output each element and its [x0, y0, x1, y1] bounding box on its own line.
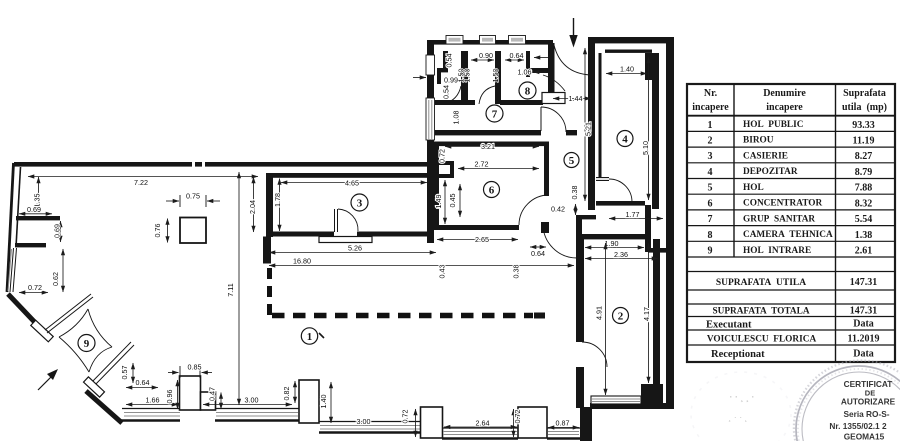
wall diagonal lower (entrance corner): [86, 391, 122, 423]
svg-text:GEOMA15: GEOMA15: [844, 432, 885, 441]
window top 1: [446, 36, 463, 45]
room8 door arc: [543, 75, 565, 91]
dim 5.21: [584, 48, 586, 201]
svg-text:4.91: 4.91: [595, 306, 604, 320]
svg-text:1.08: 1.08: [452, 111, 461, 125]
room circle 8: [519, 82, 536, 99]
svg-text:147.31: 147.31: [850, 306, 878, 317]
svg-text:Receptionat: Receptionat: [711, 349, 765, 360]
svg-text:1.50: 1.50: [463, 69, 472, 83]
dim 0.72 left: [19, 292, 48, 294]
window band left wall: [10, 248, 17, 292]
svg-text:1.06: 1.06: [518, 68, 532, 77]
room4 bottom wall: [596, 201, 645, 206]
room6 niche bottom: [437, 174, 454, 178]
room4 door arc: [609, 179, 632, 202]
arrow into divider wall: [413, 77, 426, 79]
wall left slanted outer: [7, 163, 14, 292]
stamp inner circle: [802, 372, 900, 441]
dim 0.72 rot a: [415, 409, 417, 437]
window band C (bottom wall x319-420): [319, 421, 421, 423]
room2 left wall upper: [576, 239, 584, 342]
dim 1.90: [585, 247, 644, 249]
wall bottom of stalls right: [500, 100, 543, 105]
svg-text:0.54: 0.54: [445, 54, 454, 68]
svg-text:0.54: 0.54: [442, 85, 451, 99]
room3 bottom wall left part: [273, 232, 334, 237]
hall5 step wall vertical: [576, 215, 582, 239]
stamp faint left: [691, 372, 791, 441]
svg-text:7.22: 7.22: [134, 178, 148, 187]
svg-text:7: 7: [708, 214, 713, 225]
window band E (bottom wall x547-580): [547, 427, 580, 429]
wall niche step 2 (left): [15, 243, 46, 247]
svg-text:0.45: 0.45: [448, 194, 457, 208]
svg-text:5.10: 5.10: [641, 141, 650, 155]
svg-text:0.38: 0.38: [570, 186, 579, 200]
dim 0.47: [220, 393, 222, 410]
wall left inner face line: [16, 167, 21, 247]
dim 1.35: [38, 177, 40, 210]
room8 partition: [526, 51, 530, 77]
svg-text:2: 2: [708, 136, 713, 147]
svg-text:1.66: 1.66: [146, 396, 160, 405]
room2 top wall: [582, 234, 648, 239]
dim 0.75 (column): [166, 200, 179, 202]
wall top-right (room 4): [588, 37, 674, 43]
wall right outer (full height): [666, 37, 674, 409]
svg-text:1.40: 1.40: [620, 65, 634, 74]
window top 3: [509, 36, 526, 45]
svg-text:BIROU: BIROU: [743, 136, 774, 146]
stamp outer circle: [796, 366, 900, 441]
stall1 wall stub a: [443, 51, 448, 69]
wall diagonal upper (entrance corner): [8, 294, 45, 333]
room6 door arc: [519, 195, 549, 225]
svg-text:CASIERIE: CASIERIE: [743, 152, 788, 162]
svg-text:0.57: 0.57: [120, 366, 129, 380]
stall1 door arc: [444, 86, 461, 104]
table column separator 2: [835, 84, 837, 362]
svg-text:7: 7: [492, 109, 498, 121]
svg-text:Nr. 1355/02.1 2: Nr. 1355/02.1 2: [829, 421, 887, 431]
svg-text:Seria RO-S-: Seria RO-S-: [843, 409, 889, 419]
room6 top wall: [434, 142, 549, 147]
svg-text:2.61: 2.61: [855, 246, 873, 257]
svg-text:0.75: 0.75: [186, 192, 200, 201]
room2 right inner wall: [653, 239, 660, 385]
hall7 door arc: [541, 107, 566, 132]
dashed boundary horizontal: [272, 313, 533, 319]
svg-text:0.82: 0.82: [282, 387, 291, 401]
window in divider wall a: [426, 55, 435, 75]
svg-text:9: 9: [708, 246, 713, 257]
room3 bottom wall right part: [357, 232, 434, 237]
room circle 6: [484, 182, 500, 198]
dim 1.44: [553, 98, 591, 100]
svg-text:1: 1: [307, 331, 313, 343]
room6 niche right: [450, 161, 454, 178]
window slits top-left wall: [192, 162, 195, 168]
hall5 step wall horizontal: [577, 215, 596, 219]
svg-text:0.72: 0.72: [28, 283, 42, 292]
svg-text:0.72: 0.72: [513, 410, 522, 424]
dim 2.04: [253, 177, 255, 232]
svg-text:1.44: 1.44: [569, 94, 583, 103]
dim 1.66: [126, 404, 178, 406]
room6 left wall: [434, 142, 439, 230]
svg-text:1.77: 1.77: [626, 210, 640, 219]
window band B (bottom wall x215-299): [215, 408, 299, 410]
wall top (rooms 7/8): [427, 40, 553, 45]
dim 0.64 d: [530, 246, 546, 248]
dim 2.72: [458, 168, 539, 170]
wall connector right of corridor: [645, 205, 651, 252]
dim 1.77: [609, 218, 663, 220]
dim 1.78: [279, 179, 281, 232]
wall step block room2 bottom-right: [641, 384, 663, 406]
entrance arrow: [573, 18, 575, 36]
svg-text:3: 3: [708, 151, 713, 162]
svg-text:0.38: 0.38: [512, 265, 521, 279]
svg-text:incapere: incapere: [692, 102, 729, 113]
dim 0.96: [177, 380, 179, 409]
pier column 0.85: [180, 376, 201, 410]
svg-text:0.72: 0.72: [401, 410, 410, 424]
svg-text:AUTORIZARE: AUTORIZARE: [841, 397, 896, 407]
svg-text:2.36: 2.36: [614, 250, 628, 259]
svg-text:· · ¸ ¸ ·: · · ¸ ¸ ·: [730, 392, 755, 402]
room3 door leaf: [335, 209, 338, 232]
svg-text:DEPOZITAR: DEPOZITAR: [743, 167, 798, 177]
svg-text:GRUP SANITAR: GRUP SANITAR: [743, 215, 815, 225]
svg-text:0.69: 0.69: [27, 205, 41, 214]
dim 0.69 a: [19, 213, 52, 215]
svg-text:0.64: 0.64: [531, 249, 545, 258]
dim 0.85: [168, 372, 179, 374]
svg-text:2.64: 2.64: [476, 419, 490, 428]
room6 right wall: [544, 142, 549, 196]
wall niche step 1 (left): [16, 216, 60, 220]
room4 top-right step block: [645, 53, 659, 80]
dim 7.11: [238, 172, 240, 405]
room6 niche top: [437, 161, 454, 165]
stall1 wall stub c: [437, 72, 441, 84]
svg-text:CONCENTRATOR: CONCENTRATOR: [743, 199, 822, 209]
svg-text:HOL PUBLIC: HOL PUBLIC: [743, 120, 803, 130]
svg-text:5: 5: [569, 155, 575, 167]
svg-text:8: 8: [708, 230, 713, 241]
svg-text:2.72: 2.72: [475, 160, 489, 169]
wall corner block bottom-right of hall: [580, 407, 592, 441]
wall stub right of hall7 door: [566, 130, 577, 135]
svg-text:4: 4: [622, 134, 628, 146]
svg-text:7.11: 7.11: [226, 283, 235, 296]
entry direction arrow bottom-left: [38, 375, 53, 390]
svg-text:8: 8: [525, 86, 531, 98]
room3 bottom-left corner pier: [263, 237, 271, 264]
svg-text:147.31: 147.31: [850, 277, 878, 288]
svg-text:¸ · · ˛: ¸ · · ˛: [728, 412, 748, 422]
window band D (bottom wall x443-518): [442, 427, 518, 429]
svg-text:Data: Data: [853, 319, 874, 330]
room8 wall stub top: [530, 68, 550, 73]
svg-text:7.88: 7.88: [855, 183, 873, 194]
room4 left wall outer: [588, 39, 595, 210]
svg-text:HOL: HOL: [743, 183, 764, 193]
dim 0.64 top: [505, 59, 524, 61]
svg-text:16.80: 16.80: [293, 257, 311, 266]
room circle 2: [613, 308, 629, 324]
svg-text:6: 6: [708, 199, 713, 210]
svg-text:0.47: 0.47: [208, 387, 217, 401]
svg-text:0.72: 0.72: [438, 149, 447, 163]
svg-text:Data: Data: [853, 349, 874, 360]
dim 1.49 room6: [444, 180, 446, 224]
svg-text:0.43: 0.43: [438, 265, 447, 279]
svg-text:0.87: 0.87: [556, 419, 570, 428]
corridor door arc to room1: [543, 224, 577, 258]
dim 3.21: [445, 146, 539, 148]
arrow into 0.64: [534, 57, 548, 59]
dim 0.42: [575, 204, 577, 215]
dim 1.40 b: [330, 382, 332, 423]
door swing arcs star (room 9): [59, 309, 112, 372]
svg-text:6: 6: [489, 185, 495, 197]
svg-text:1.38: 1.38: [855, 230, 873, 241]
window in divider wall b: [426, 98, 435, 140]
svg-text:8.27: 8.27: [855, 151, 873, 162]
wall vertical main divider x427 (rooms 3/6/7): [427, 44, 434, 243]
dim 5.10: [648, 57, 650, 200]
column square room1: [180, 218, 206, 244]
svg-text:Suprafata: Suprafata: [843, 88, 886, 99]
room circle 4: [617, 131, 633, 147]
stamp text: [829, 379, 895, 441]
window band A (bottom wall x122-180): [122, 408, 180, 410]
dim 0.82: [294, 381, 296, 403]
svg-text:4: 4: [708, 167, 713, 178]
svg-text:9: 9: [84, 338, 90, 350]
dim 0.87: [548, 427, 579, 429]
wall entrance left jamb vertical: [548, 43, 555, 93]
svg-text:0.64: 0.64: [136, 378, 150, 387]
svg-text:1.50: 1.50: [491, 69, 500, 83]
dim 3.00 a: [203, 404, 292, 406]
svg-text:3.00: 3.00: [357, 417, 371, 426]
dim 7.22: [28, 176, 258, 178]
svg-text:11.2019: 11.2019: [848, 334, 880, 345]
room3 left wall: [266, 173, 273, 237]
room4 top inner sill: [605, 50, 652, 53]
dim 4.65: [281, 182, 427, 184]
dim 2.64: [444, 426, 517, 428]
stall partition 2 (room 7): [495, 51, 501, 104]
svg-text:CAMERA TEHNICA: CAMERA TEHNICA: [743, 230, 833, 240]
pier column 0.72 a: [421, 407, 443, 438]
room circle 1: [301, 328, 317, 344]
svg-text:1.78: 1.78: [273, 193, 282, 207]
dim 4.17: [648, 243, 650, 383]
svg-text:1.40: 1.40: [319, 395, 328, 409]
corridor step wall to outer: [648, 248, 672, 253]
svg-text:5.21: 5.21: [584, 122, 593, 136]
svg-text:SUPRAFATA UTILA: SUPRAFATA UTILA: [716, 278, 806, 288]
svg-text:8.79: 8.79: [855, 167, 873, 178]
svg-text:Nr.: Nr.: [704, 88, 718, 99]
room4 door leaf: [596, 178, 609, 181]
pier column 0.82: [299, 380, 319, 423]
svg-text:Denumire: Denumire: [763, 88, 806, 99]
svg-text:utila (mp): utila (mp): [842, 102, 887, 113]
svg-text:0.62: 0.62: [51, 272, 60, 286]
svg-text:HOL INTRARE: HOL INTRARE: [743, 246, 811, 256]
door leaf 1 (room 9 double door): [45, 294, 93, 333]
dim 2.65: [437, 239, 518, 241]
svg-text:3.00: 3.00: [245, 396, 259, 405]
room2 door arc: [582, 342, 607, 367]
room4 right inner wall: [652, 80, 659, 209]
svg-text:0.85: 0.85: [188, 363, 202, 372]
svg-text:5: 5: [708, 183, 713, 194]
svg-text:SUPRAFATA TOTALA: SUPRAFATA TOTALA: [712, 307, 809, 317]
table row lines: [687, 115, 895, 117]
svg-text:1: 1: [708, 120, 713, 131]
svg-text:5.26: 5.26: [348, 244, 362, 253]
entrance door arc: [554, 45, 590, 75]
dim 0.64 c: [126, 387, 158, 389]
svg-text:2.65: 2.65: [475, 235, 489, 244]
svg-text:2.04: 2.04: [248, 200, 257, 214]
dim 16.80: [269, 265, 574, 267]
table outer border: [687, 84, 895, 362]
svg-text:0.76: 0.76: [153, 224, 162, 238]
window top 2: [480, 36, 496, 45]
dim 0.72 rot b: [513, 409, 515, 437]
dim 0.69 b: [60, 221, 62, 242]
dim 0.90: [471, 59, 494, 61]
svg-text:0.90: 0.90: [479, 51, 493, 60]
svg-text:8.32: 8.32: [855, 199, 873, 210]
room2 top wall jog: [645, 234, 651, 252]
room3 top wall: [266, 173, 429, 178]
svg-text:incapere: incapere: [766, 102, 803, 113]
pier column 0.72 b: [518, 407, 547, 438]
stall partition 1 (room 7): [461, 51, 468, 104]
door threshold box lower (room 9): [83, 377, 104, 397]
stall2 door arc: [479, 86, 495, 104]
stall1 wall stub b: [437, 68, 448, 72]
room3 threshold step below: [319, 237, 372, 243]
svg-text:0.42: 0.42: [551, 205, 565, 214]
room4 left wall inner line: [599, 53, 602, 177]
room circle 5: [564, 153, 579, 168]
dim 1.06: [533, 71, 546, 73]
dashed boundary vertical: [267, 268, 272, 316]
wall top-left long (room1/room3 top): [14, 162, 434, 167]
svg-text:CERTIFICAT: CERTIFICAT: [844, 379, 893, 389]
svg-text:11.19: 11.19: [853, 136, 875, 147]
pier step 0.47: [201, 392, 216, 410]
wall room2 bottom: [590, 403, 674, 409]
svg-text:2: 2: [618, 311, 624, 323]
room6 bottom wall: [434, 225, 519, 230]
svg-text:0.69: 0.69: [53, 224, 62, 238]
room circle 9: [78, 335, 95, 352]
wall stub corridor left: [541, 222, 549, 233]
dim 0.62: [62, 249, 64, 292]
svg-text:4.65: 4.65: [345, 179, 359, 188]
dim 0.57: [132, 363, 134, 383]
wall hall7 bottom: [435, 130, 541, 135]
svg-text:1.49: 1.49: [434, 195, 443, 209]
room3 door arc: [338, 209, 358, 231]
svg-text:3.21: 3.21: [481, 142, 495, 151]
svg-text:VOICULESCU FLORICA: VOICULESCU FLORICA: [707, 335, 817, 345]
door box room8-hall5: [542, 93, 565, 104]
door leaf 2 (room 9 double door): [89, 342, 134, 388]
wall bottom of stalls left: [435, 100, 475, 105]
dim 2.36: [585, 258, 658, 260]
room circle 7: [486, 105, 503, 122]
window room2 bottom: [591, 396, 641, 404]
svg-text:Executant: Executant: [706, 320, 752, 331]
dim 0.45 room6: [459, 184, 461, 217]
door threshold box upper (room 9): [31, 320, 53, 342]
dim 1.40 a: [606, 73, 647, 75]
dashed boundary end block: [534, 313, 545, 319]
svg-text:3: 3: [357, 198, 363, 210]
dim 4.91: [605, 243, 607, 395]
table column separator 1: [733, 84, 735, 257]
svg-text:93.33: 93.33: [852, 120, 875, 131]
svg-text:0.64: 0.64: [510, 51, 524, 60]
dim 5.26: [269, 252, 436, 254]
room circle 3: [351, 194, 368, 211]
room2 left wall lower: [576, 367, 584, 408]
svg-text:4.17: 4.17: [642, 307, 651, 321]
stamp curved text (tiny dashes along top arc): [794, 360, 900, 441]
hall7 door leaf: [540, 107, 542, 131]
svg-text:1.90: 1.90: [605, 239, 619, 248]
svg-text:5.54: 5.54: [855, 214, 873, 225]
dim 0.76 (column): [167, 219, 169, 243]
svg-text:0.96: 0.96: [165, 390, 174, 404]
